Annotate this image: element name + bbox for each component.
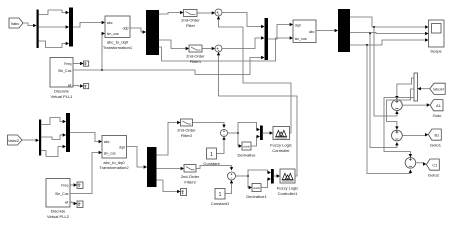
svg-text:Discrete: Discrete: [54, 89, 70, 94]
svg-text:du/dt: du/dt: [253, 186, 260, 190]
svg-text:abc_to_dq0: abc_to_dq0: [107, 40, 129, 45]
svg-text:abc: abc: [104, 140, 110, 144]
svg-text:dq0: dq0: [123, 27, 129, 31]
svg-text:Discrete: Discrete: [51, 209, 67, 214]
svg-text:abc: abc: [309, 30, 315, 34]
svg-text:2nd-Order: 2nd-Order: [186, 54, 205, 59]
svg-text:Virtual PLL2: Virtual PLL2: [47, 214, 70, 219]
svg-text:sin_cos: sin_cos: [295, 37, 307, 41]
svg-text:2nd-Order: 2nd-Order: [177, 128, 196, 133]
svg-text:Filter: Filter: [186, 23, 196, 28]
svg-text:Controller: Controller: [272, 148, 290, 153]
svg-text:Transformation1: Transformation1: [103, 45, 133, 50]
svg-text:Controller1: Controller1: [278, 191, 299, 196]
svg-text:Transformation2: Transformation2: [99, 165, 129, 170]
svg-text:2nd-Order: 2nd-Order: [181, 174, 200, 179]
svg-text:sin_cos: sin_cos: [104, 152, 116, 156]
svg-text:dq0: dq0: [119, 146, 125, 150]
svg-text:1: 1: [210, 152, 213, 158]
svg-text:Iabcref: Iabcref: [433, 88, 443, 92]
svg-text:Sin_Cos: Sin_Cos: [58, 69, 71, 73]
svg-text:Fuzzy Logic: Fuzzy Logic: [270, 143, 292, 148]
svg-text:C1: C1: [432, 164, 437, 168]
svg-text:Derivative1: Derivative1: [246, 194, 267, 199]
svg-text:Sin_Cos: Sin_Cos: [55, 192, 68, 196]
svg-text:Freq: Freq: [61, 184, 68, 188]
svg-text:abc: abc: [107, 21, 113, 25]
svg-text:1: 1: [219, 192, 222, 198]
svg-text:wt: wt: [65, 201, 69, 205]
svg-text:A1: A1: [436, 104, 441, 108]
svg-text:Filter1: Filter1: [190, 59, 202, 64]
svg-text:Vabc2: Vabc2: [8, 138, 20, 143]
svg-text:Filter2: Filter2: [181, 133, 193, 138]
svg-text:Constant1: Constant1: [211, 201, 230, 206]
svg-text:B1: B1: [434, 134, 439, 138]
svg-text:wt: wt: [68, 84, 72, 88]
svg-text:Derivative: Derivative: [238, 153, 257, 158]
svg-text:2nd-Order: 2nd-Order: [181, 18, 200, 23]
svg-text:du/dt: du/dt: [243, 145, 250, 149]
svg-text:sin_cos: sin_cos: [107, 32, 119, 36]
svg-text:Goto1: Goto1: [430, 143, 442, 148]
svg-text:Virtual PLL1: Virtual PLL1: [51, 94, 74, 99]
svg-text:Freq: Freq: [64, 62, 71, 66]
svg-text:Filter3: Filter3: [184, 179, 196, 184]
svg-text:Scope: Scope: [430, 49, 442, 54]
svg-text:Fuzzy Logic: Fuzzy Logic: [277, 186, 299, 191]
svg-text:Vabc: Vabc: [11, 21, 20, 26]
svg-text:Goto2: Goto2: [428, 173, 440, 178]
svg-text:Goto: Goto: [433, 113, 443, 118]
svg-text:dq0: dq0: [295, 24, 301, 28]
